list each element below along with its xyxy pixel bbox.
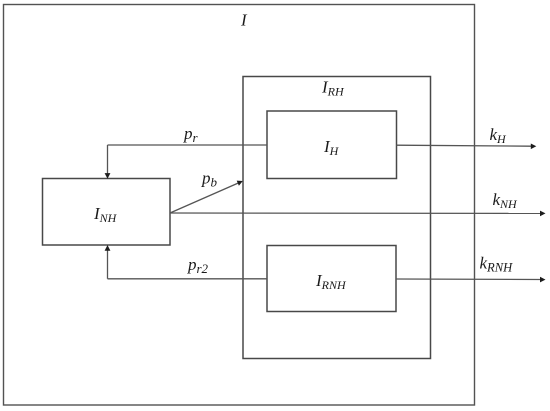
wire k_RNH [396, 278, 541, 281]
arrowhead p_r [105, 173, 111, 179]
arrowhead k_RNH [540, 277, 546, 283]
wire k_H [397, 145, 532, 146]
wire k_NH [170, 212, 541, 214]
wire p_r2 vertical [107, 250, 109, 279]
arrowhead p_r2 [105, 245, 111, 251]
arrowhead p_b [237, 181, 243, 186]
wire p_b diagonal [170, 183, 238, 213]
arrowhead k_H [531, 144, 537, 150]
box I_RH [243, 77, 431, 359]
box I_NH [43, 179, 171, 246]
wire p_r horizontal [108, 144, 268, 146]
wire p_r vertical [107, 145, 109, 174]
box I_RNH [267, 246, 396, 312]
arrowhead k_NH [540, 211, 546, 217]
box I_H [267, 111, 397, 179]
wire p_r2 horizontal [108, 278, 268, 280]
